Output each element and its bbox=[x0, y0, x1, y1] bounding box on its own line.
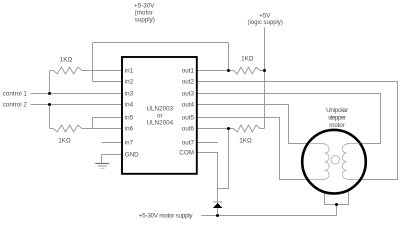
svg-text:control 1: control 1 bbox=[3, 91, 28, 98]
svg-text:in5: in5 bbox=[125, 115, 134, 122]
svg-text:in1: in1 bbox=[125, 68, 134, 75]
svg-text:ULN2003: ULN2003 bbox=[146, 106, 173, 113]
svg-text:+5-30V: +5-30V bbox=[134, 2, 155, 9]
svg-text:COM: COM bbox=[179, 150, 194, 157]
svg-text:1KΩ: 1KΩ bbox=[239, 138, 252, 145]
svg-text:out2: out2 bbox=[182, 79, 195, 86]
svg-text:in7: in7 bbox=[125, 140, 134, 147]
svg-text:stepper: stepper bbox=[328, 115, 346, 122]
svg-text:control 2: control 2 bbox=[3, 102, 28, 109]
svg-text:out6: out6 bbox=[182, 126, 195, 133]
svg-text:Unipolar: Unipolar bbox=[326, 107, 348, 114]
svg-text:out7: out7 bbox=[182, 140, 195, 147]
svg-text:GND: GND bbox=[125, 152, 139, 159]
svg-text:out1: out1 bbox=[182, 68, 195, 75]
svg-text:in2: in2 bbox=[125, 79, 134, 86]
svg-text:(motor: (motor bbox=[135, 9, 153, 16]
svg-text:1KΩ: 1KΩ bbox=[241, 56, 254, 63]
svg-text:out5: out5 bbox=[182, 115, 195, 122]
svg-text:ULN2004: ULN2004 bbox=[146, 120, 173, 127]
svg-text:or: or bbox=[157, 113, 163, 120]
svg-text:supply): supply) bbox=[135, 16, 155, 23]
svg-text:1KΩ: 1KΩ bbox=[60, 57, 73, 64]
svg-text:in4: in4 bbox=[125, 102, 134, 109]
svg-text:motor: motor bbox=[329, 122, 345, 129]
svg-text:out4: out4 bbox=[182, 102, 195, 109]
svg-text:out3: out3 bbox=[182, 91, 195, 98]
svg-text:+5-30V motor supply: +5-30V motor supply bbox=[139, 213, 194, 220]
svg-text:(logic supply): (logic supply) bbox=[248, 20, 283, 26]
svg-text:1KΩ: 1KΩ bbox=[58, 138, 71, 145]
svg-text:in3: in3 bbox=[125, 91, 134, 98]
svg-text:+5V: +5V bbox=[259, 13, 271, 20]
svg-text:in6: in6 bbox=[125, 126, 134, 133]
